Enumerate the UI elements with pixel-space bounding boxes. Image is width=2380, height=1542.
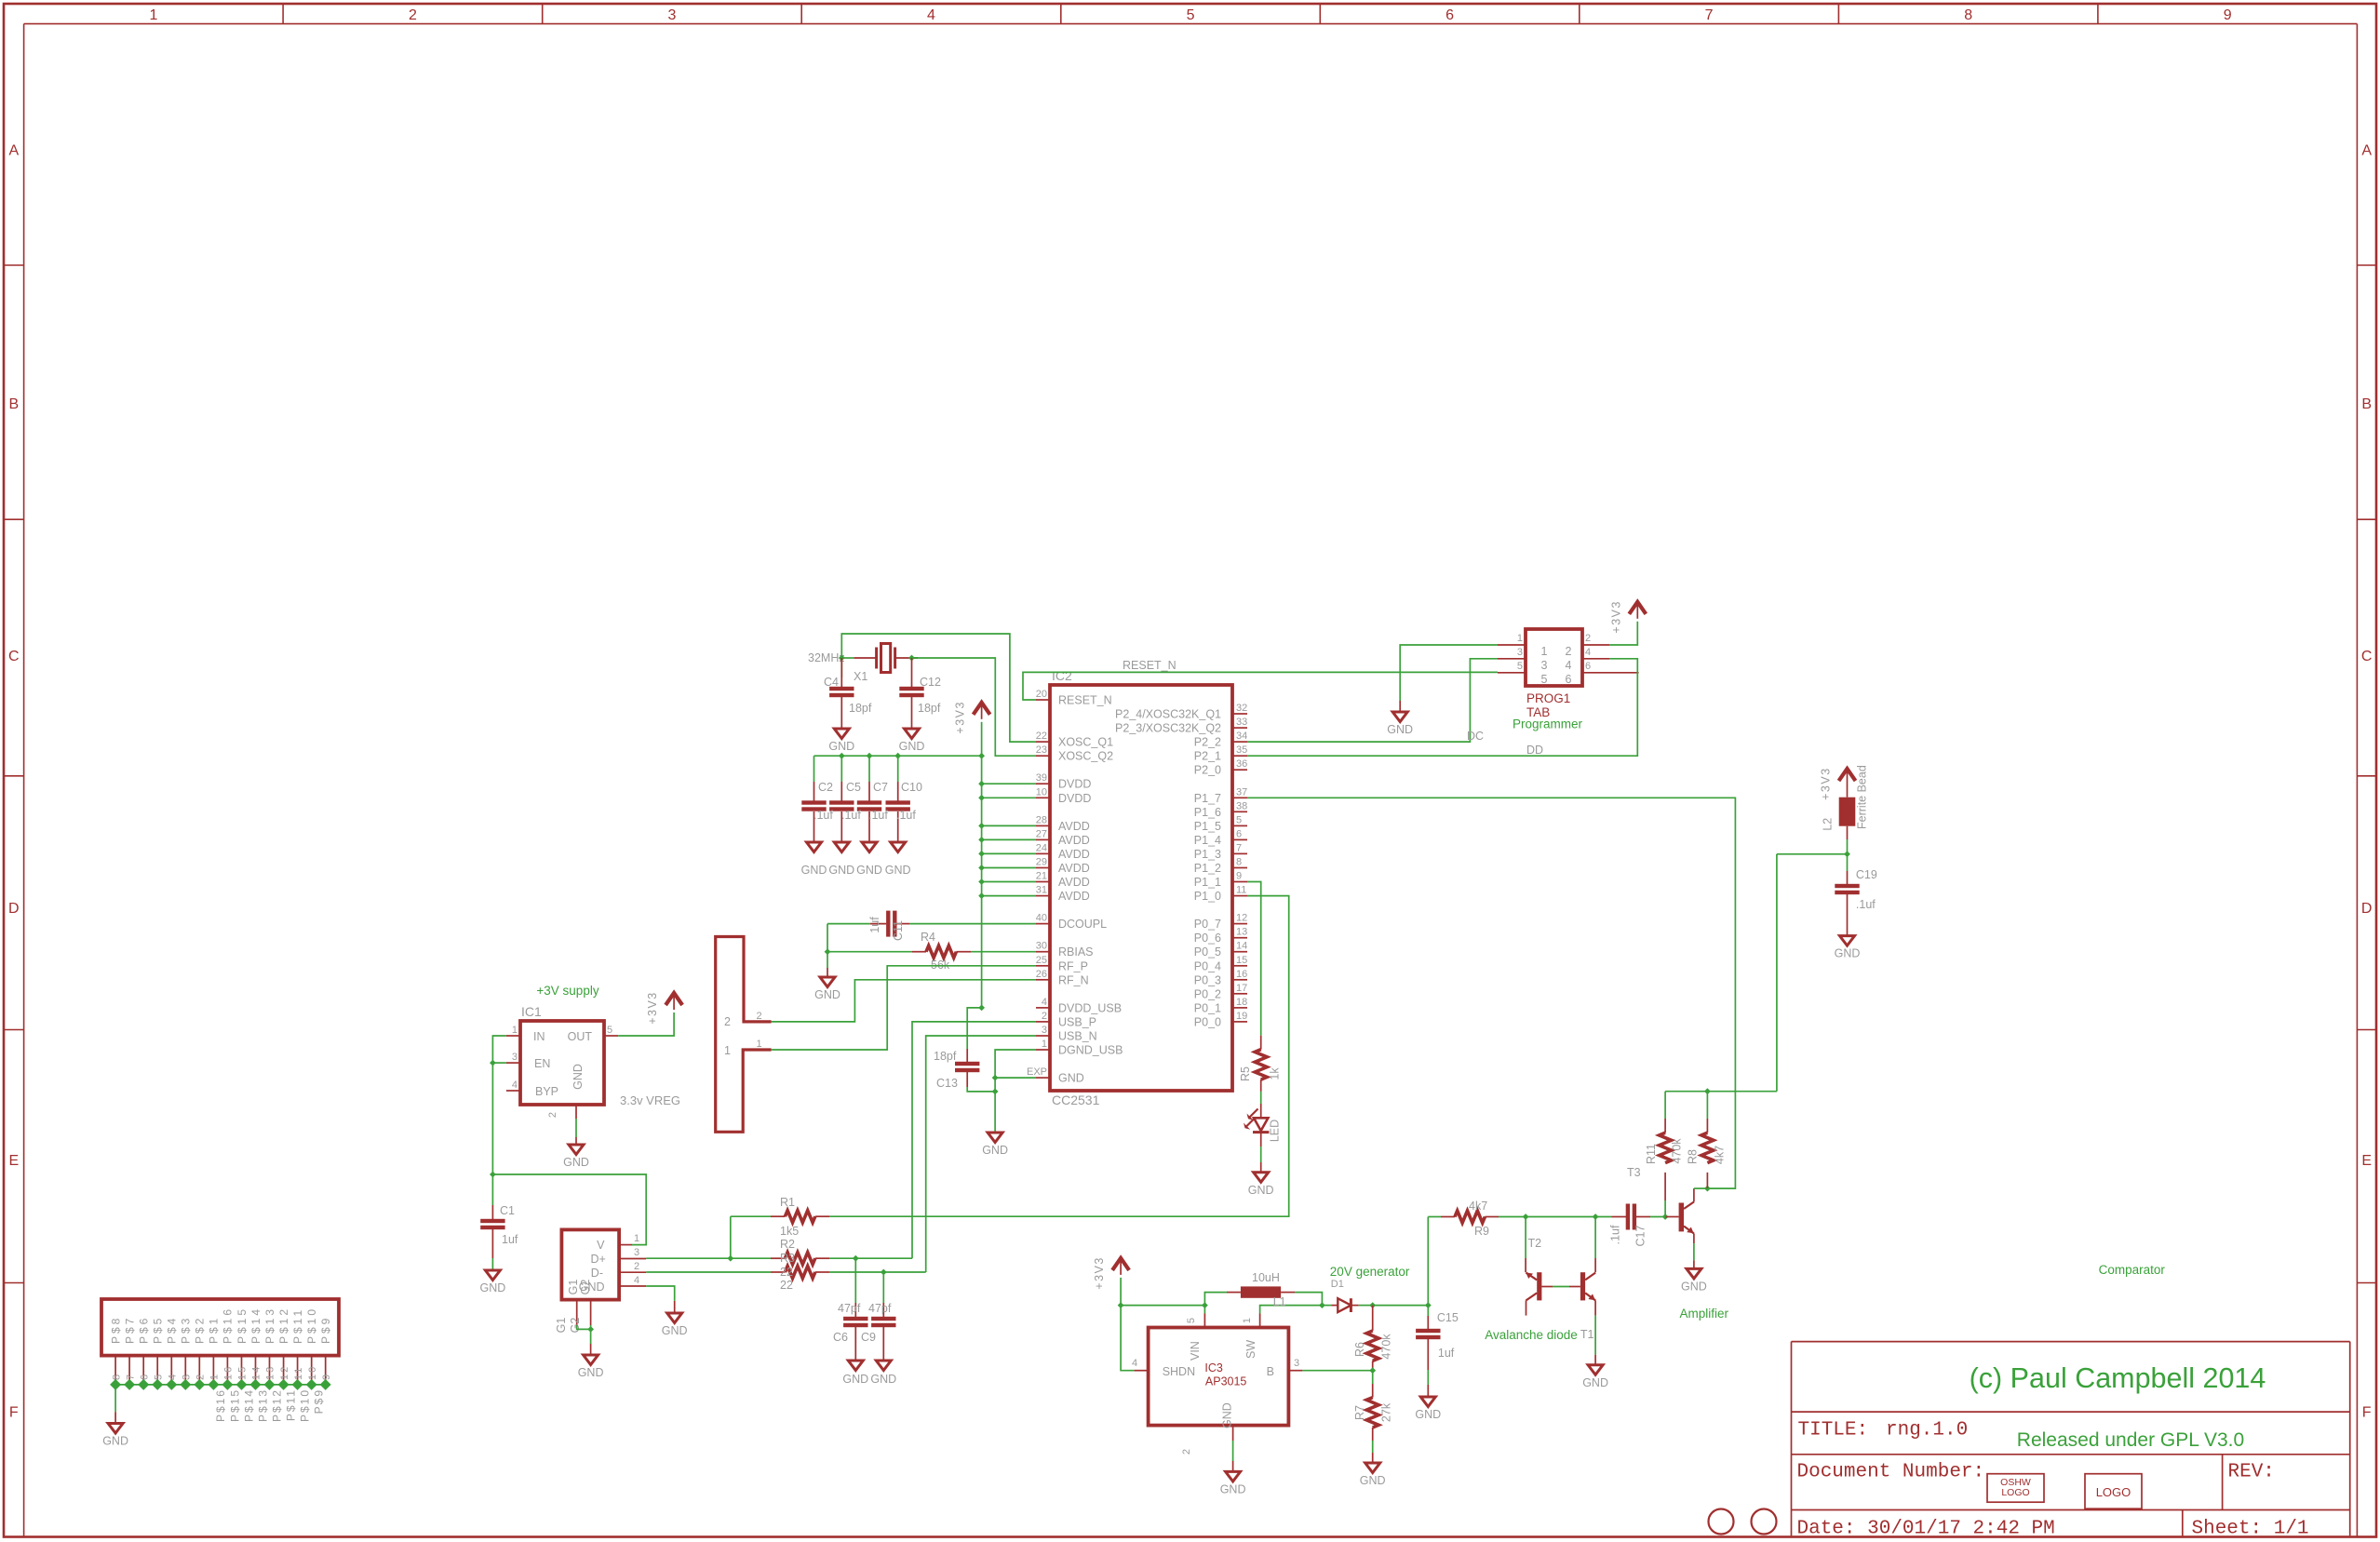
svg-text:1: 1 — [149, 7, 157, 23]
JP1 pin P$9 — [325, 1356, 327, 1385]
ground below shield — [584, 1355, 598, 1365]
junction B node — [1369, 1367, 1376, 1374]
junction T3 base — [1662, 1213, 1669, 1220]
svg-text:1uf: 1uf — [868, 917, 881, 933]
svg-text:P$13: P$13 — [263, 1307, 276, 1344]
resistor R2 22 — [771, 1257, 785, 1259]
wire +3V3 rail vertical — [981, 756, 983, 1008]
svg-text:RF_P: RF_P — [1058, 959, 1088, 972]
svg-text:Amplifier: Amplifier — [1680, 1307, 1729, 1321]
svg-text:C11: C11 — [892, 920, 905, 941]
junction C6 — [853, 1255, 859, 1262]
svg-text:AVDD: AVDD — [1058, 820, 1090, 833]
IC2 pin 40 DCOUPL — [1036, 923, 1050, 925]
IC2 pin 19 P0_0 — [1233, 1021, 1247, 1023]
PROG1 pin 3 and pin 4 — [1498, 658, 1526, 660]
svg-text:12: 12 — [1236, 913, 1247, 924]
ground below C7 — [862, 842, 877, 852]
svg-text:P$1: P$1 — [208, 1316, 221, 1344]
svg-text:P$10: P$10 — [299, 1388, 312, 1422]
svg-text:P$14: P$14 — [242, 1388, 255, 1422]
JP1 pin P$7 — [128, 1356, 130, 1385]
svg-text:33: 33 — [1236, 717, 1247, 728]
svg-text:3: 3 — [512, 1052, 518, 1063]
IC3 pin 2 GND — [1232, 1426, 1234, 1441]
svg-text:+3V3: +3V3 — [1093, 1256, 1106, 1290]
svg-text:PROG1: PROG1 — [1526, 691, 1570, 705]
svg-text:P$5: P$5 — [152, 1316, 165, 1344]
wire T2 base to T1 base — [1541, 1286, 1553, 1288]
ground at PROG1 pin1 — [1392, 712, 1407, 722]
svg-text:47pf: 47pf — [868, 1302, 892, 1315]
IC2 pin 33 P2_3/XOSC32K_Q2 — [1233, 727, 1247, 729]
svg-text:18pf: 18pf — [849, 702, 872, 715]
LED LED1 — [1260, 1092, 1262, 1104]
junction VIN rail left — [1118, 1302, 1124, 1308]
svg-text:GND: GND — [1221, 1402, 1234, 1428]
svg-text:7: 7 — [1236, 842, 1242, 853]
svg-text:rng.1.0: rng.1.0 — [1886, 1420, 1968, 1441]
svg-text:AVDD: AVDD — [1058, 848, 1090, 861]
JP1 pin P$6 — [142, 1356, 144, 1385]
svg-text:D: D — [8, 901, 20, 917]
svg-text:P$16: P$16 — [222, 1307, 235, 1344]
JP1 pin P$11 — [297, 1356, 299, 1385]
svg-text:21: 21 — [1036, 871, 1047, 882]
svg-text:REV:: REV: — [2228, 1461, 2275, 1482]
wire VIN rail — [1121, 1305, 1204, 1307]
junction C9 — [881, 1269, 887, 1276]
svg-text:36: 36 — [1236, 758, 1247, 770]
svg-text:GND: GND — [1582, 1376, 1608, 1389]
svg-text:Programmer: Programmer — [1513, 717, 1583, 731]
svg-text:2: 2 — [634, 1261, 639, 1272]
IC1 pin 5 OUT — [604, 1035, 618, 1037]
junction R1/D+ — [727, 1255, 733, 1262]
transistor T1 — [1594, 1217, 1596, 1259]
svg-text:P$6: P$6 — [138, 1316, 151, 1344]
svg-text:DVDD: DVDD — [1058, 778, 1091, 791]
svg-text:24: 24 — [1036, 842, 1047, 853]
svg-text:5: 5 — [1541, 673, 1548, 686]
svg-text:RESET_N: RESET_N — [1123, 659, 1177, 672]
wire IC1 GND pin to ground — [575, 1119, 577, 1137]
ground below T3 — [1687, 1268, 1701, 1279]
connector PROG1 TAB — [1526, 629, 1582, 686]
junction C15 top — [1425, 1302, 1432, 1308]
IC1 pin 1 IN — [506, 1035, 520, 1037]
svg-text:T2: T2 — [1528, 1237, 1542, 1250]
svg-text:P1_3: P1_3 — [1194, 848, 1221, 861]
svg-text:P0_4: P0_4 — [1194, 959, 1221, 972]
wire D- net to C9 — [829, 1271, 926, 1273]
svg-text:Comparator: Comparator — [2099, 1263, 2166, 1277]
svg-text:R1: R1 — [780, 1196, 795, 1209]
svg-text:R7: R7 — [1353, 1405, 1366, 1420]
svg-text:P$7: P$7 — [123, 1316, 136, 1344]
svg-text:GND: GND — [828, 740, 854, 753]
resistor R6 470k — [1372, 1306, 1374, 1319]
svg-text:11: 11 — [1236, 885, 1246, 896]
svg-text:18pf: 18pf — [918, 702, 941, 715]
IC2 pin 39 DVDD — [1036, 783, 1050, 784]
svg-text:G1: G1 — [567, 1280, 580, 1295]
wire XOSC_Q2 net — [912, 658, 1037, 756]
JP1 pin P$1 — [212, 1356, 214, 1385]
svg-text:GND: GND — [1220, 1482, 1246, 1495]
ground below C9 — [876, 1361, 891, 1371]
svg-text:B: B — [8, 396, 19, 412]
svg-text:3: 3 — [1042, 1025, 1047, 1036]
ground below RBIAS node — [827, 952, 828, 968]
svg-text:L2: L2 — [1821, 818, 1834, 831]
wire DGND_USB to ground — [995, 1050, 1036, 1133]
wire B net — [1288, 1370, 1302, 1372]
svg-text:P$16: P$16 — [214, 1388, 227, 1422]
svg-text:.1uf: .1uf — [896, 809, 916, 822]
IC2 pin 16 P0_3 — [1233, 979, 1247, 981]
svg-text:T1: T1 — [1580, 1328, 1594, 1341]
connector USB1 — [561, 1229, 619, 1299]
IC2 pin 31 AVDD — [1036, 895, 1050, 897]
capacitor C2 .1uf — [814, 756, 815, 782]
svg-text:P1_4: P1_4 — [1194, 834, 1221, 847]
svg-text:IC1: IC1 — [521, 1004, 542, 1019]
wire D- net from USB connector — [646, 1271, 771, 1273]
svg-text:GND: GND — [828, 864, 854, 877]
wire antenna pin1 to RF_P — [772, 966, 1036, 1050]
ground below IC1 — [569, 1145, 584, 1155]
svg-text:EXP: EXP — [1027, 1066, 1047, 1078]
svg-text:P0_5: P0_5 — [1194, 945, 1221, 959]
svg-text:2: 2 — [757, 1011, 762, 1022]
svg-text:P1_0: P1_0 — [1194, 890, 1221, 903]
JP1 pin P$15 — [241, 1356, 243, 1385]
svg-text:1: 1 — [1517, 633, 1523, 644]
svg-text:10: 10 — [307, 1365, 318, 1380]
svg-text:LOGO: LOGO — [2001, 1487, 2029, 1498]
junction EXP — [992, 1075, 999, 1081]
svg-text:38: 38 — [1236, 800, 1247, 811]
svg-text:DVDD_USB: DVDD_USB — [1058, 1001, 1122, 1014]
supply +3V3 arrow at AVDD rail — [974, 703, 990, 715]
svg-text:DVDD: DVDD — [1058, 792, 1091, 805]
wire VBUS to USB V pin — [492, 1174, 646, 1245]
IC2 pin 22 XOSC_Q1 — [1036, 741, 1050, 743]
svg-text:R11: R11 — [1645, 1144, 1658, 1164]
wire amplifier +3V3 rail — [1665, 1091, 1777, 1093]
svg-text:EN: EN — [534, 1057, 550, 1070]
svg-text:C15: C15 — [1437, 1311, 1459, 1324]
capacitor C4 — [840, 658, 842, 690]
wire AVDD branches — [982, 825, 1036, 826]
USB pin 2 D- — [619, 1271, 646, 1273]
svg-text:GND: GND — [856, 864, 882, 877]
JP1 pin P$5 — [156, 1356, 158, 1385]
svg-text:XOSC_Q1: XOSC_Q1 — [1058, 736, 1113, 749]
svg-text:R5: R5 — [1239, 1066, 1252, 1081]
wire bypass cap rail — [814, 755, 982, 757]
resistor R8 4k7 — [1706, 1173, 1708, 1188]
wire 20V to C15 — [1373, 1305, 1429, 1307]
svg-text:C17: C17 — [1634, 1225, 1647, 1246]
svg-text:.1uf: .1uf — [1856, 898, 1876, 911]
svg-text:C9: C9 — [861, 1331, 876, 1344]
svg-text:X1: X1 — [854, 670, 867, 683]
PROG1 pin 1 and pin 2 — [1498, 644, 1526, 646]
svg-text:P0_7: P0_7 — [1194, 918, 1221, 931]
svg-text:17: 17 — [1236, 983, 1247, 994]
IC2 pin 38 P1_6 — [1233, 811, 1247, 812]
svg-text:470k: 470k — [1670, 1138, 1683, 1164]
junction shield — [587, 1326, 594, 1333]
svg-text:GND: GND — [480, 1281, 506, 1294]
svg-text:AVDD: AVDD — [1058, 876, 1090, 889]
svg-text:AVDD: AVDD — [1058, 890, 1090, 903]
svg-text:6: 6 — [1585, 661, 1591, 672]
svg-text:DC: DC — [1467, 730, 1484, 743]
svg-text:11: 11 — [293, 1366, 304, 1380]
svg-text:6: 6 — [139, 1373, 150, 1380]
USB shield pins G1 G2 — [576, 1300, 578, 1325]
svg-text:G2: G2 — [569, 1318, 582, 1334]
svg-text:G2: G2 — [579, 1280, 592, 1295]
svg-text:25: 25 — [1036, 955, 1047, 966]
svg-text:1k5: 1k5 — [780, 1225, 799, 1238]
wire IC1 OUT to +3V3 — [618, 1012, 674, 1036]
svg-text:3: 3 — [1294, 1358, 1299, 1369]
IC2 pin 28 AVDD — [1036, 825, 1050, 826]
junction cap rail — [894, 753, 901, 759]
svg-text:R3: R3 — [780, 1252, 795, 1265]
svg-text:P2_4/XOSC32K_Q1: P2_4/XOSC32K_Q1 — [1115, 708, 1221, 721]
ground below LED — [1254, 1173, 1269, 1183]
IC2 pin 6 P1_4 — [1233, 838, 1247, 840]
svg-text:5: 5 — [607, 1025, 612, 1036]
svg-text:22: 22 — [780, 1266, 793, 1279]
IC2 pin 37 P1_7 — [1233, 797, 1247, 798]
IC2 pin 14 P0_5 — [1233, 951, 1247, 953]
IC2 pin 12 P0_7 — [1233, 923, 1247, 925]
svg-text:F: F — [2362, 1405, 2372, 1421]
svg-text:30: 30 — [1036, 941, 1047, 952]
IC2 pin 26 RF_N — [1036, 979, 1050, 981]
svg-text:32: 32 — [1236, 703, 1247, 714]
svg-text:P2_2: P2_2 — [1194, 736, 1221, 749]
svg-text:D-: D- — [591, 1267, 603, 1280]
svg-text:P1_1: P1_1 — [1194, 876, 1221, 889]
IC2 pin 36 P2_0 — [1233, 769, 1247, 771]
svg-text:L1: L1 — [1273, 1295, 1286, 1308]
IC2 pin 3 USB_N — [1036, 1035, 1050, 1037]
svg-text:+3V3: +3V3 — [646, 991, 659, 1025]
svg-text:LED: LED — [1269, 1120, 1282, 1142]
svg-text:AVDD: AVDD — [1058, 862, 1090, 875]
svg-text:VIN: VIN — [1189, 1341, 1202, 1361]
mounting hole circles — [1709, 1509, 1734, 1535]
junction T3 collector node — [1704, 1186, 1711, 1192]
svg-text:Date: 30/01/17 2:42 PM: Date: 30/01/17 2:42 PM — [1797, 1519, 2055, 1540]
IC2 pin 4 DVDD_USB — [1036, 1007, 1050, 1009]
svg-text:.1uf: .1uf — [841, 809, 861, 822]
svg-text:D+: D+ — [590, 1253, 605, 1266]
ground below C13/EXP — [988, 1133, 1002, 1143]
svg-text:P2_1: P2_1 — [1194, 750, 1221, 763]
svg-text:+3V3: +3V3 — [1820, 767, 1833, 800]
ground below C6 — [848, 1361, 863, 1371]
svg-text:1: 1 — [512, 1025, 518, 1036]
resistor R7 27k — [1372, 1371, 1374, 1384]
supply +3V3 at PROG1 pin2 — [1609, 622, 1637, 645]
IC2 pin 35 P2_1 — [1233, 755, 1247, 757]
wire T3 emitter to ground — [1693, 1234, 1695, 1244]
wire R1 to P1_0 — [829, 896, 1289, 1217]
junction T1 — [1593, 1213, 1599, 1220]
svg-text:P$14: P$14 — [249, 1307, 262, 1344]
IC2 pin 5 P1_5 — [1233, 825, 1247, 826]
svg-text:5: 5 — [1186, 1318, 1197, 1323]
svg-text:CC2531: CC2531 — [1052, 1093, 1100, 1107]
svg-text:2: 2 — [195, 1373, 207, 1380]
PROG1 pin 5 and pin 6 — [1498, 672, 1526, 674]
JP1 pin P$10 — [311, 1356, 313, 1385]
svg-text:P1_6: P1_6 — [1194, 806, 1221, 819]
wire USB_N net vertical — [926, 1036, 1036, 1272]
svg-text:GND: GND — [1415, 1408, 1441, 1421]
svg-text:C: C — [8, 649, 20, 664]
capacitor C10 .1uf — [897, 756, 899, 782]
svg-text:+3V supply: +3V supply — [536, 984, 598, 998]
svg-text:P$9: P$9 — [313, 1388, 326, 1414]
IC IC1 3.3v regulator — [520, 1021, 604, 1105]
junction XOSC_Q2 — [908, 655, 915, 662]
svg-text:34: 34 — [1236, 731, 1247, 742]
IC2 pin 27 AVDD — [1036, 838, 1050, 840]
svg-text:10: 10 — [1036, 786, 1047, 798]
svg-text:R2: R2 — [780, 1238, 795, 1251]
svg-text:RESET_N: RESET_N — [1058, 694, 1112, 707]
svg-text:6: 6 — [1236, 828, 1242, 839]
JP1 pin P$2 — [198, 1356, 200, 1385]
svg-text:22: 22 — [780, 1279, 793, 1292]
svg-text:E: E — [8, 1153, 19, 1169]
capacitor C12 — [911, 658, 913, 690]
svg-text:AVDD: AVDD — [1058, 834, 1090, 847]
svg-text:1uf: 1uf — [502, 1233, 518, 1246]
wire P1_7 to amplifier output — [1247, 798, 1735, 1188]
ground below C12 — [905, 729, 920, 739]
wire DVDD_USB branch junction — [978, 1005, 985, 1012]
svg-text:3: 3 — [1517, 647, 1523, 658]
svg-text:C1: C1 — [500, 1204, 515, 1217]
svg-text:R6: R6 — [1353, 1342, 1366, 1357]
IC2 pin 18 P0_1 — [1233, 1007, 1247, 1009]
svg-text:GND: GND — [899, 740, 925, 753]
IC2 pin 29 AVDD — [1036, 867, 1050, 869]
svg-text:P0_0: P0_0 — [1194, 1015, 1221, 1028]
svg-text:XOSC_Q2: XOSC_Q2 — [1058, 750, 1113, 763]
svg-text:P$13: P$13 — [256, 1388, 269, 1422]
svg-text:USB_P: USB_P — [1058, 1015, 1096, 1028]
svg-text:GND: GND — [571, 1064, 585, 1090]
svg-text:P$3: P$3 — [180, 1316, 193, 1344]
net RESET_N wire — [1023, 672, 1498, 700]
svg-text:P0_2: P0_2 — [1194, 987, 1221, 1000]
svg-text:RBIAS: RBIAS — [1058, 945, 1094, 959]
wire IC1 input net — [492, 1036, 506, 1174]
USB pin 1 V — [619, 1244, 632, 1246]
svg-text:14: 14 — [251, 1365, 262, 1380]
svg-text:P$4: P$4 — [166, 1316, 179, 1344]
supply +3V3 at IC1 OUT — [666, 993, 682, 1005]
svg-text:16: 16 — [223, 1365, 235, 1380]
svg-text:3: 3 — [668, 7, 677, 23]
svg-text:12: 12 — [279, 1365, 290, 1380]
svg-text:4k7: 4k7 — [1469, 1200, 1487, 1213]
svg-text:9: 9 — [2224, 7, 2232, 23]
svg-text:GND: GND — [842, 1373, 868, 1386]
wire PROG1 pin1 to ground — [1400, 645, 1498, 701]
junction VBUS — [490, 1172, 496, 1178]
svg-text:C5: C5 — [846, 781, 861, 794]
svg-text:5: 5 — [1187, 7, 1195, 23]
svg-text:DCOUPL: DCOUPL — [1058, 918, 1107, 931]
svg-text:P1_2: P1_2 — [1194, 862, 1221, 875]
supply +3V3 at L2 — [1839, 769, 1856, 781]
svg-text:C: C — [2361, 649, 2373, 664]
IC1 pin 2 GND — [575, 1105, 577, 1119]
svg-text:27k: 27k — [1380, 1402, 1393, 1422]
svg-text:3: 3 — [182, 1373, 193, 1380]
ground below USB pin4 — [667, 1313, 682, 1323]
resistor R1 1k5 — [730, 1216, 732, 1258]
svg-text:10uH: 10uH — [1252, 1271, 1280, 1284]
svg-text:1: 1 — [1242, 1318, 1253, 1323]
svg-text:1: 1 — [1042, 1039, 1047, 1050]
svg-text:18: 18 — [1236, 997, 1247, 1008]
capacitor C19 .1uf — [1847, 854, 1849, 871]
resistor R11 470k — [1664, 1200, 1666, 1217]
IC2 pin 8 P1_2 — [1233, 867, 1247, 869]
IC2 pin 24 AVDD — [1036, 852, 1050, 854]
IC2 pin EXP GND — [1036, 1077, 1050, 1079]
wire XOSC_Q1 net — [841, 634, 1036, 742]
svg-text:39: 39 — [1036, 772, 1047, 784]
svg-text:29: 29 — [1036, 857, 1047, 868]
svg-text:1k: 1k — [1269, 1067, 1282, 1080]
capacitor C15 1uf — [1427, 1306, 1429, 1316]
IC2 pin 13 P0_6 — [1233, 937, 1247, 939]
svg-text:2: 2 — [409, 7, 417, 23]
svg-text:GND: GND — [870, 1373, 896, 1386]
svg-text:5: 5 — [1236, 814, 1242, 825]
svg-text:F: F — [9, 1405, 19, 1421]
svg-text:4: 4 — [168, 1373, 179, 1380]
capacitor C17 .1uf — [1612, 1216, 1627, 1218]
USB pin 4 GND — [619, 1285, 646, 1287]
svg-text:DD: DD — [1526, 744, 1543, 757]
svg-text:P$2: P$2 — [194, 1316, 207, 1344]
svg-text:2: 2 — [1585, 633, 1591, 644]
svg-text:+3V3: +3V3 — [954, 701, 967, 734]
svg-text:.1uf: .1uf — [1609, 1225, 1622, 1244]
OSHW logo box — [1987, 1474, 2044, 1503]
resistor R9 4k7 — [1427, 1217, 1429, 1306]
capacitor C1 1uf — [491, 1174, 493, 1205]
svg-text:A: A — [8, 142, 19, 158]
IC2 pin 10 DVDD — [1036, 797, 1050, 798]
svg-text:(c) Paul Campbell 2014: (c) Paul Campbell 2014 — [1970, 1362, 2266, 1394]
